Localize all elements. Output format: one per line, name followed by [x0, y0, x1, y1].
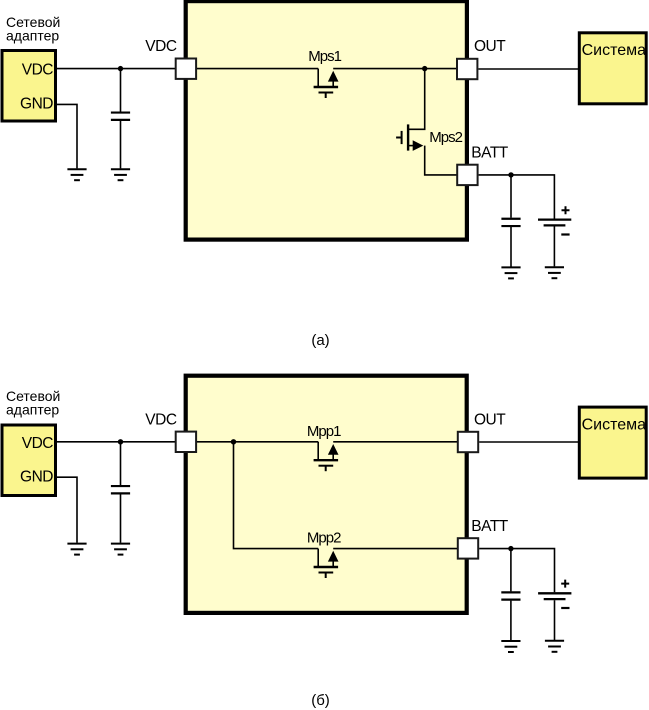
wire capacitor C2 to ground: [510, 227, 512, 267]
svg-text:GND: GND: [20, 96, 53, 113]
wire capacitor C3 to ground: [120, 494, 122, 542]
svg-text:VDC: VDC: [145, 411, 177, 428]
ground below C3: [111, 544, 130, 555]
svg-text:адаптер: адаптер: [6, 402, 59, 418]
svg-text:Mps1: Mps1: [308, 48, 341, 65]
svg-text:Mps2: Mps2: [429, 129, 462, 146]
wire OUT pin to system (b): [479, 441, 578, 443]
svg-text:GND: GND: [20, 468, 53, 485]
battery BT2 minus label: [561, 607, 569, 609]
wire battery BT2 to ground: [554, 600, 556, 640]
wire adapter VDC to IC pin: [56, 68, 176, 70]
ground below C1: [111, 169, 130, 180]
junction node on BATT wire (b): [508, 546, 513, 551]
ground below adapter GND: [67, 169, 86, 180]
wire capacitor C4 to ground: [510, 601, 512, 641]
junction node on OUT wire: [422, 66, 427, 71]
adapter A1 box: [2, 51, 56, 122]
transistor Mps1: [314, 69, 339, 98]
svg-text:(а): (а): [311, 332, 329, 349]
pin BATT square: [457, 165, 477, 185]
svg-text:OUT: OUT: [474, 38, 506, 55]
wire VDC pin to Mps1: [197, 68, 318, 70]
battery BT2: [538, 593, 571, 599]
wire battery BT1 to ground: [553, 227, 555, 267]
svg-text:VDC: VDC: [22, 61, 54, 78]
wire BATT pin to battery branch: [479, 175, 555, 219]
wire VDC pin to Mpp1: [197, 441, 318, 443]
wire Mpp1 to OUT pin: [333, 441, 457, 443]
transistor Mpp1: [314, 442, 339, 471]
pin VDC square: [176, 59, 196, 79]
wire Mpp2 to BATT pin: [333, 548, 457, 550]
svg-text:Mpp2: Mpp2: [307, 530, 341, 547]
svg-text:(б): (б): [311, 692, 330, 709]
system box S2: [579, 407, 646, 478]
capacitor C4: [501, 592, 520, 599]
wire junction to capacitor C1: [120, 69, 122, 112]
junction node on VDC wire (b): [118, 439, 123, 444]
wire Mps1 to OUT pin: [333, 68, 456, 70]
junction node on VDC wire: [118, 66, 123, 71]
wire capacitor C1 to ground: [120, 121, 122, 168]
pin BATT square (b): [458, 538, 478, 558]
wire junction to capacitor C4: [510, 549, 512, 592]
svg-text:Система: Система: [582, 42, 647, 59]
wire junction to capacitor C2: [510, 175, 512, 218]
wire BATT pin to battery branch (b): [479, 549, 554, 593]
svg-text:VDC: VDC: [22, 435, 54, 452]
ground below C2: [501, 267, 520, 278]
junction node inside IC: [231, 439, 236, 444]
junction node on BATT wire: [508, 172, 513, 177]
battery BT1: [538, 220, 571, 226]
transistor Mps2: [396, 124, 423, 150]
ground below BT1: [545, 267, 564, 278]
battery BT1 plus label: [562, 206, 570, 214]
battery BT1 minus label: [561, 233, 569, 235]
wire junction down to Mpp2 branch: [234, 442, 319, 549]
wire Mps2 source to BATT pin: [425, 146, 457, 175]
capacitor C2: [501, 219, 520, 226]
system box S1: [579, 33, 646, 104]
ground below C4: [501, 641, 520, 652]
wire adapter A2 GND to ground: [56, 477, 78, 543]
transistor Mpp2: [314, 549, 339, 578]
adapter A2 box: [2, 425, 56, 496]
pin VDC square (b): [176, 432, 196, 452]
svg-text:VDC: VDC: [145, 38, 177, 55]
wire junction to capacitor C3: [120, 442, 122, 485]
pin OUT square (b): [458, 432, 478, 452]
wire adapter A2 VDC to IC pin: [56, 441, 176, 443]
pin OUT square: [457, 59, 477, 79]
IC U1 box: [186, 1, 467, 240]
IC U2 box: [186, 376, 467, 613]
svg-text:BATT: BATT: [471, 518, 508, 535]
svg-text:Mpp1: Mpp1: [307, 423, 341, 440]
battery BT2 plus label: [561, 580, 569, 588]
svg-text:адаптер: адаптер: [6, 28, 59, 44]
svg-text:Система: Система: [582, 417, 647, 434]
ground below BT2: [545, 641, 564, 652]
wire OUT pin to system: [478, 68, 578, 70]
svg-text:BATT: BATT: [471, 145, 508, 162]
wire junction to Mps2 drain: [409, 69, 425, 130]
svg-text:OUT: OUT: [474, 411, 506, 428]
capacitor C1: [111, 113, 130, 120]
ground below adapter A2 GND: [67, 544, 86, 555]
wire adapter GND to ground: [56, 104, 78, 168]
capacitor C3: [111, 486, 130, 493]
